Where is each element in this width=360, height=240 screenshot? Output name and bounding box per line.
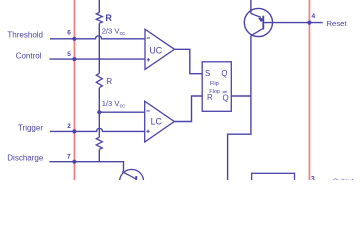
svg-text:2/3 V: 2/3 V xyxy=(102,26,121,35)
svg-text:cc: cc xyxy=(120,104,126,110)
node pin2 junction dot xyxy=(72,129,76,133)
wire: transistor collector down, jog left, to output stage xyxy=(228,36,251,180)
wire: UC output to flip-flop S input xyxy=(175,49,203,73)
svg-text:Control: Control xyxy=(16,52,42,61)
wire: LC output to flip-flop R input xyxy=(174,96,202,122)
svg-text:cc: cc xyxy=(120,31,126,37)
svg-text:6: 6 xyxy=(67,30,71,37)
svg-text:Output: Output xyxy=(333,179,354,180)
wire: voltage divider chain top xyxy=(98,0,100,13)
wire: divider between R1 and R2 xyxy=(98,23,100,73)
svg-text:7: 7 xyxy=(67,153,71,160)
svg-text:Flip: Flip xyxy=(210,81,219,87)
output stage box (clipped at bottom) xyxy=(252,173,295,185)
transistor Q1 (discharge, clipped at bottom) xyxy=(120,169,144,193)
svg-text:LC: LC xyxy=(151,117,163,127)
svg-text:Discharge: Discharge xyxy=(7,154,44,163)
left pin rail (red bus line) xyxy=(73,0,75,180)
svg-text:1/3 V: 1/3 V xyxy=(102,99,121,108)
flip-flop U2 xyxy=(202,62,231,112)
svg-text:Reset: Reset xyxy=(327,19,348,28)
wire: Threshold pin 6 to UC minus input (hop over divider) xyxy=(50,36,145,39)
node pin5 junction dot xyxy=(72,57,76,61)
op-amp LC (lower comparator) xyxy=(145,101,175,142)
svg-text:3: 3 xyxy=(311,176,315,180)
wire: Trigger pin 2 to LC plus input (hop over divider) xyxy=(50,128,145,131)
svg-text:R: R xyxy=(105,13,112,23)
wire: divider between R2 and 1/3Vcc node xyxy=(98,88,100,137)
svg-text:R: R xyxy=(106,77,112,86)
node pin4 junction dot xyxy=(307,21,311,25)
node pin7 junction dot xyxy=(72,160,76,164)
node 1/3 Vcc junction dot xyxy=(97,110,101,114)
wire: Vcc rail down to transistor emitter xyxy=(250,0,252,14)
right pin rail (red bus line) xyxy=(308,0,310,180)
resistor R (top) xyxy=(96,13,102,24)
svg-text:Threshold: Threshold xyxy=(7,30,43,39)
svg-text:4: 4 xyxy=(312,13,316,20)
resistor R (middle) xyxy=(96,73,102,87)
wire: Discharge pin 7 to Q1 transistor xyxy=(49,162,123,172)
resistor R (bottom) xyxy=(96,137,102,149)
svg-text:R: R xyxy=(207,93,213,102)
wire: 1/3Vcc node to LC minus input xyxy=(99,111,144,113)
svg-text:S: S xyxy=(205,69,210,78)
svg-text:Q: Q xyxy=(221,69,227,78)
transistor Q2 (PNP reset transistor) xyxy=(244,8,272,36)
node pin6 junction dot xyxy=(72,37,76,41)
wire: transistor base to Reset pin 4 xyxy=(263,22,323,24)
svg-text:5: 5 xyxy=(67,51,71,58)
svg-text:2: 2 xyxy=(67,123,71,130)
svg-text:Q: Q xyxy=(223,94,229,103)
wire: divider bottom to discharge line xyxy=(98,149,100,161)
wire: flip-flop Qbar output to emitter line xyxy=(231,95,251,97)
op-amp UC (upper comparator) xyxy=(145,29,175,69)
svg-text:Trigger: Trigger xyxy=(18,123,43,132)
wire: Control pin 5 to UC plus input xyxy=(49,58,145,60)
svg-text:UC: UC xyxy=(149,45,162,55)
